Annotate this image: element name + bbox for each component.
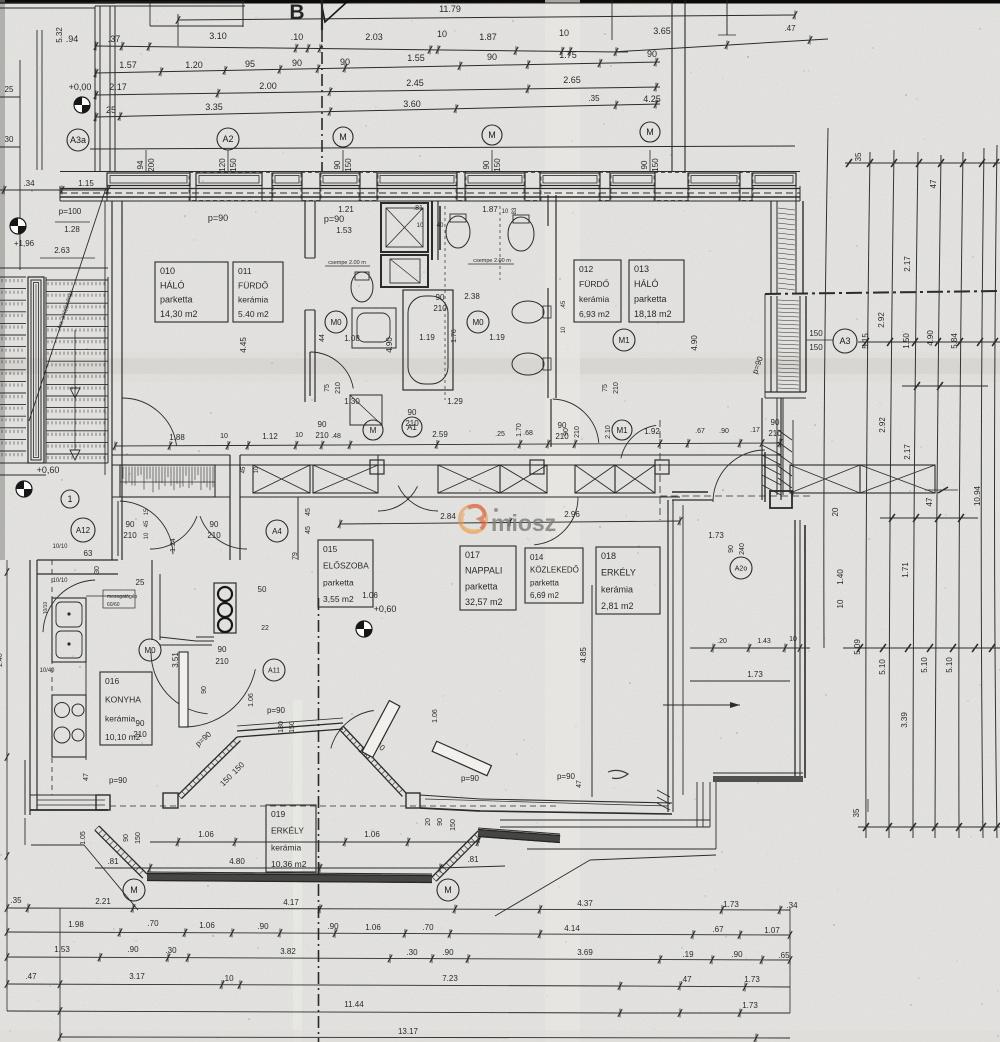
svg-text:4.90: 4.90 xyxy=(385,337,394,353)
svg-text:.48: .48 xyxy=(331,433,341,440)
svg-text:5.84: 5.84 xyxy=(950,333,959,349)
svg-text:2.92: 2.92 xyxy=(877,312,886,328)
svg-text:.34: .34 xyxy=(23,179,35,188)
svg-text:210: 210 xyxy=(315,431,329,440)
svg-text:150: 150 xyxy=(344,158,353,172)
svg-text:6,93 m2: 6,93 m2 xyxy=(579,309,610,319)
svg-text:47: 47 xyxy=(929,179,938,188)
svg-text:1.50: 1.50 xyxy=(902,333,911,349)
svg-text:ERKÉLY: ERKÉLY xyxy=(271,826,304,836)
svg-text:2.45: 2.45 xyxy=(406,78,424,88)
svg-text:FÜRDŐ: FÜRDŐ xyxy=(238,280,269,290)
svg-text:.47: .47 xyxy=(680,975,692,984)
svg-text:3.17: 3.17 xyxy=(129,972,145,981)
svg-text:150: 150 xyxy=(809,343,823,352)
svg-text:4.90: 4.90 xyxy=(690,335,699,351)
svg-text:90: 90 xyxy=(563,428,570,436)
svg-text:1.76: 1.76 xyxy=(451,329,458,343)
svg-text:50: 50 xyxy=(258,585,267,594)
svg-text:210: 210 xyxy=(123,531,137,540)
svg-text:1.19: 1.19 xyxy=(419,333,435,342)
svg-text:1.06: 1.06 xyxy=(432,709,439,723)
svg-text:M: M xyxy=(488,130,496,140)
svg-text:013: 013 xyxy=(634,264,649,274)
svg-text:90: 90 xyxy=(218,645,227,654)
svg-text:p=90: p=90 xyxy=(109,776,128,785)
svg-text:017: 017 xyxy=(465,550,480,560)
svg-text:2.40: 2.40 xyxy=(0,653,4,667)
svg-text:45: 45 xyxy=(305,526,312,534)
svg-text:180: 180 xyxy=(278,721,285,733)
svg-text:90: 90 xyxy=(482,160,491,169)
svg-text:1.15: 1.15 xyxy=(78,179,94,188)
svg-text:3.35: 3.35 xyxy=(205,102,223,112)
svg-text:.35: .35 xyxy=(10,896,22,905)
svg-text:ELŐSZOBA: ELŐSZOBA xyxy=(323,561,369,571)
svg-text:47: 47 xyxy=(83,773,90,781)
svg-text:10: 10 xyxy=(559,28,569,38)
svg-text:.68: .68 xyxy=(523,430,533,437)
svg-text:5.10: 5.10 xyxy=(878,659,887,675)
svg-text:M: M xyxy=(646,127,654,137)
svg-text:10,10 m2: 10,10 m2 xyxy=(105,732,141,742)
svg-text:1.28: 1.28 xyxy=(64,225,80,234)
svg-text:.81: .81 xyxy=(107,857,119,866)
svg-text:1.71: 1.71 xyxy=(901,562,910,578)
svg-text:45: 45 xyxy=(305,508,312,516)
svg-text:1.53: 1.53 xyxy=(336,226,352,235)
svg-text:1: 1 xyxy=(67,494,72,504)
svg-text:2,81 m2: 2,81 m2 xyxy=(601,601,634,611)
svg-text:011: 011 xyxy=(238,266,252,276)
svg-text:90: 90 xyxy=(136,719,145,728)
svg-text:4.37: 4.37 xyxy=(577,899,593,908)
svg-text:M0: M0 xyxy=(330,318,342,327)
svg-text:.90: .90 xyxy=(127,945,139,954)
svg-text:210: 210 xyxy=(574,426,581,438)
svg-text:4.25: 4.25 xyxy=(643,94,661,104)
svg-text:A3: A3 xyxy=(839,336,850,346)
svg-text:10: 10 xyxy=(417,223,424,229)
svg-text:2.92: 2.92 xyxy=(878,417,887,433)
svg-text:11.44: 11.44 xyxy=(344,1000,364,1009)
svg-text:11.79: 11.79 xyxy=(439,4,461,14)
svg-text:4.90: 4.90 xyxy=(926,330,935,346)
svg-text:.90: .90 xyxy=(257,922,269,931)
svg-text:150: 150 xyxy=(651,158,660,172)
svg-text:csempe 2.00 m: csempe 2.00 m xyxy=(328,260,366,266)
svg-text:1.73: 1.73 xyxy=(708,531,724,540)
svg-text:10: 10 xyxy=(220,433,228,440)
svg-text:20: 20 xyxy=(831,507,840,516)
svg-text:KÖZLEKEDŐ: KÖZLEKEDŐ xyxy=(530,566,579,575)
svg-text:10/10: 10/10 xyxy=(52,544,68,550)
svg-text:5.15: 5.15 xyxy=(861,333,870,349)
svg-text:.25: .25 xyxy=(495,431,505,438)
svg-text:3.10: 3.10 xyxy=(209,31,227,41)
svg-text:KONYHA: KONYHA xyxy=(105,695,141,705)
svg-text:4.45: 4.45 xyxy=(239,337,248,353)
svg-text:5.09: 5.09 xyxy=(853,639,862,655)
svg-text:13.17: 13.17 xyxy=(398,1027,419,1036)
svg-text:p=90: p=90 xyxy=(324,214,344,224)
svg-text:1.29: 1.29 xyxy=(447,397,463,406)
svg-text:018: 018 xyxy=(601,551,616,561)
svg-text:90: 90 xyxy=(728,545,735,553)
svg-text:.10: .10 xyxy=(291,32,304,42)
svg-text:1.06: 1.06 xyxy=(362,591,378,600)
svg-text:90: 90 xyxy=(647,49,657,59)
svg-text:A11: A11 xyxy=(268,668,280,675)
svg-text:.10: .10 xyxy=(222,974,234,983)
svg-text:35: 35 xyxy=(852,808,861,817)
svg-text:90: 90 xyxy=(201,686,208,694)
svg-text:1.07: 1.07 xyxy=(764,926,780,935)
svg-text:10: 10 xyxy=(836,599,845,608)
svg-text:B: B xyxy=(289,1,304,24)
svg-text:10,36 m2: 10,36 m2 xyxy=(271,859,307,869)
svg-text:35: 35 xyxy=(854,152,863,161)
svg-text:79: 79 xyxy=(292,552,299,560)
svg-text:10/10: 10/10 xyxy=(52,578,68,584)
svg-text:90: 90 xyxy=(487,52,497,62)
svg-text:p=90: p=90 xyxy=(557,772,576,781)
svg-text:010: 010 xyxy=(160,266,175,276)
svg-text:10.94: 10.94 xyxy=(973,485,982,506)
svg-text:90: 90 xyxy=(333,160,342,169)
svg-text:1.53: 1.53 xyxy=(54,945,70,954)
svg-text:2.65: 2.65 xyxy=(563,75,581,85)
svg-text:95: 95 xyxy=(245,59,255,69)
svg-text:4.17: 4.17 xyxy=(283,898,299,907)
svg-text:90: 90 xyxy=(126,520,135,529)
svg-text:1.57: 1.57 xyxy=(119,60,137,70)
svg-text:90: 90 xyxy=(292,58,302,68)
svg-text:kerámia: kerámia xyxy=(271,842,302,852)
svg-text:.70: .70 xyxy=(422,923,434,932)
svg-text:2.63: 2.63 xyxy=(54,246,70,255)
svg-text:10: 10 xyxy=(254,466,260,473)
svg-text:3.82: 3.82 xyxy=(280,947,296,956)
svg-text:10: 10 xyxy=(789,636,797,643)
svg-text:45: 45 xyxy=(144,520,150,527)
svg-text:10: 10 xyxy=(144,532,150,539)
svg-text:4.80: 4.80 xyxy=(229,857,245,866)
svg-text:10/10: 10/10 xyxy=(43,602,49,615)
svg-text:10: 10 xyxy=(561,326,567,333)
svg-text:4.85: 4.85 xyxy=(579,647,588,663)
svg-text:2.21: 2.21 xyxy=(95,897,111,906)
svg-text:3.65: 3.65 xyxy=(653,26,671,36)
svg-text:M1: M1 xyxy=(618,336,630,345)
svg-text:5.10: 5.10 xyxy=(920,657,929,673)
svg-text:.65: .65 xyxy=(778,951,790,960)
svg-text:M: M xyxy=(339,132,347,142)
svg-text:1.20: 1.20 xyxy=(185,60,203,70)
svg-text:.94: .94 xyxy=(66,34,79,44)
svg-text:1.43: 1.43 xyxy=(757,638,771,645)
svg-text:A2o: A2o xyxy=(735,566,748,573)
svg-text:1.87: 1.87 xyxy=(482,205,498,214)
svg-text:2.17: 2.17 xyxy=(903,444,912,460)
svg-text:1.06: 1.06 xyxy=(248,693,255,707)
svg-text:1.92: 1.92 xyxy=(644,427,660,436)
svg-text:A4: A4 xyxy=(272,527,282,536)
svg-text:1.06: 1.06 xyxy=(365,923,381,932)
svg-text:M0: M0 xyxy=(472,318,484,327)
svg-text:.30: .30 xyxy=(165,946,177,955)
svg-text:012: 012 xyxy=(579,264,593,274)
svg-text:016: 016 xyxy=(105,676,119,686)
svg-text:+1,96: +1,96 xyxy=(14,239,35,248)
svg-text:1.30: 1.30 xyxy=(344,397,360,406)
svg-text:.83: .83 xyxy=(512,207,518,216)
svg-text:44: 44 xyxy=(319,334,326,342)
svg-text:1.73: 1.73 xyxy=(747,670,763,679)
svg-text:1.12: 1.12 xyxy=(262,432,278,441)
svg-text:1.98: 1.98 xyxy=(68,920,84,929)
svg-text:94: 94 xyxy=(136,160,145,169)
svg-text:1.73: 1.73 xyxy=(742,1001,758,1010)
svg-text:1.70: 1.70 xyxy=(516,423,523,437)
svg-text:120: 120 xyxy=(218,158,227,172)
svg-text:5.40 m2: 5.40 m2 xyxy=(238,309,269,319)
svg-text:40: 40 xyxy=(437,223,444,229)
svg-text:parketta: parketta xyxy=(634,294,667,304)
svg-text:1.08: 1.08 xyxy=(344,334,360,343)
svg-text:150: 150 xyxy=(289,721,296,733)
svg-text:kerámia: kerámia xyxy=(105,713,136,723)
svg-text:200: 200 xyxy=(147,158,156,172)
svg-text:.90: .90 xyxy=(731,950,743,959)
svg-text:parketta: parketta xyxy=(160,295,193,305)
svg-text:240: 240 xyxy=(739,543,746,555)
svg-text:60/60: 60/60 xyxy=(107,602,120,608)
svg-text:FÜRDŐ: FÜRDŐ xyxy=(579,279,610,289)
svg-text:+0,00: +0,00 xyxy=(69,82,92,92)
svg-text:210: 210 xyxy=(335,382,342,394)
svg-text:1.05: 1.05 xyxy=(80,831,87,845)
svg-text:25: 25 xyxy=(136,578,145,587)
svg-text:.19: .19 xyxy=(682,950,694,959)
svg-text:1.75: 1.75 xyxy=(559,50,577,60)
svg-text:47: 47 xyxy=(925,497,934,506)
svg-text:1.55: 1.55 xyxy=(407,53,425,63)
svg-text:90: 90 xyxy=(123,834,130,842)
svg-text:HÁLÓ: HÁLÓ xyxy=(634,279,659,289)
svg-text:A2: A2 xyxy=(222,134,233,144)
svg-text:10: 10 xyxy=(295,432,303,439)
svg-text:210: 210 xyxy=(768,429,782,438)
svg-text:.81: .81 xyxy=(467,855,479,864)
svg-text:parketta: parketta xyxy=(323,577,354,587)
svg-text:kerámia: kerámia xyxy=(579,294,610,304)
svg-text:parketta: parketta xyxy=(465,581,498,591)
svg-text:HÁLÓ: HÁLÓ xyxy=(160,280,185,290)
svg-text:.47: .47 xyxy=(784,24,796,33)
svg-text:M1: M1 xyxy=(616,426,628,435)
svg-text:2.10: 2.10 xyxy=(605,425,612,439)
svg-text:30: 30 xyxy=(94,566,101,574)
svg-text:75: 75 xyxy=(324,384,331,392)
svg-text:2.17: 2.17 xyxy=(109,82,127,92)
svg-text:1.06: 1.06 xyxy=(364,830,380,839)
svg-text:5.10: 5.10 xyxy=(945,657,954,673)
svg-text:3.69: 3.69 xyxy=(577,948,593,957)
svg-text:1.87: 1.87 xyxy=(479,32,497,42)
svg-text:10: 10 xyxy=(437,29,447,39)
svg-text:p=100: p=100 xyxy=(59,207,82,216)
svg-text:150: 150 xyxy=(809,329,823,338)
svg-text:22: 22 xyxy=(261,625,269,632)
svg-text:.45: .45 xyxy=(561,300,567,309)
svg-text:.90: .90 xyxy=(327,922,339,931)
svg-text:A12: A12 xyxy=(76,526,91,535)
svg-text:kerámia: kerámia xyxy=(238,295,269,305)
svg-text:150: 150 xyxy=(450,819,457,831)
svg-text:+0,60: +0,60 xyxy=(374,604,397,614)
svg-text:1.19: 1.19 xyxy=(489,333,505,342)
svg-text:45: 45 xyxy=(241,466,247,473)
svg-text:mosogatógép: mosogatógép xyxy=(107,594,138,600)
svg-text:90: 90 xyxy=(436,293,445,302)
svg-text:4.14: 4.14 xyxy=(564,924,580,933)
svg-text:30: 30 xyxy=(5,135,14,144)
svg-text:.20: .20 xyxy=(717,638,727,645)
svg-text:7.23: 7.23 xyxy=(442,974,458,983)
svg-text:2.38: 2.38 xyxy=(464,292,480,301)
svg-text:90: 90 xyxy=(340,57,350,67)
svg-text:90: 90 xyxy=(437,818,444,826)
svg-text:.30: .30 xyxy=(406,948,418,957)
svg-text:10: 10 xyxy=(502,209,509,215)
svg-text:150: 150 xyxy=(135,832,142,844)
svg-text:150: 150 xyxy=(493,158,502,172)
svg-text:M: M xyxy=(444,885,452,895)
svg-text:90: 90 xyxy=(408,408,417,417)
svg-text:014: 014 xyxy=(530,553,544,562)
svg-text:parketta: parketta xyxy=(530,578,559,587)
svg-text:1.73: 1.73 xyxy=(723,900,739,909)
svg-text:M: M xyxy=(130,885,138,895)
svg-text:5.32: 5.32 xyxy=(55,27,64,43)
svg-text:210: 210 xyxy=(433,304,447,313)
svg-text:3.39: 3.39 xyxy=(900,712,909,728)
svg-text:47: 47 xyxy=(576,780,583,788)
svg-text:150: 150 xyxy=(229,158,238,172)
svg-text:10/40: 10/40 xyxy=(39,668,55,674)
svg-text:20: 20 xyxy=(425,818,432,826)
svg-text:.67: .67 xyxy=(695,428,705,435)
svg-text:A3a: A3a xyxy=(70,135,86,145)
svg-text:kerámia: kerámia xyxy=(601,584,633,594)
svg-text:210: 210 xyxy=(215,657,229,666)
svg-text:2.00: 2.00 xyxy=(259,81,277,91)
svg-text:ERKÉLY: ERKÉLY xyxy=(601,568,636,578)
svg-text:csempe 2.00 m: csempe 2.00 m xyxy=(473,258,511,264)
svg-text:.81: .81 xyxy=(413,205,423,212)
svg-text:019: 019 xyxy=(271,809,285,819)
svg-text:2.17: 2.17 xyxy=(903,256,912,272)
svg-text:2.96: 2.96 xyxy=(564,510,580,519)
svg-text:25: 25 xyxy=(5,85,14,94)
svg-text:M: M xyxy=(370,426,377,435)
svg-text:.17: .17 xyxy=(750,427,760,434)
svg-text:+0,60: +0,60 xyxy=(37,465,60,475)
svg-text:p=90: p=90 xyxy=(267,706,286,715)
svg-text:NAPPALI: NAPPALI xyxy=(465,566,502,576)
svg-text:14,30 m2: 14,30 m2 xyxy=(160,309,198,319)
svg-text:1.40: 1.40 xyxy=(836,569,845,585)
svg-text:2.03: 2.03 xyxy=(365,32,383,42)
svg-text:1.73: 1.73 xyxy=(744,975,760,984)
svg-text:.90: .90 xyxy=(442,948,454,957)
svg-text:2.59: 2.59 xyxy=(432,430,448,439)
svg-text:1.88: 1.88 xyxy=(169,433,185,442)
svg-text:18,18 m2: 18,18 m2 xyxy=(634,309,672,319)
svg-text:.70: .70 xyxy=(147,919,159,928)
svg-text:90: 90 xyxy=(318,420,327,429)
svg-text:.34: .34 xyxy=(786,901,798,910)
svg-text:A1: A1 xyxy=(407,423,417,432)
svg-text:.67: .67 xyxy=(712,925,724,934)
svg-text:90: 90 xyxy=(771,418,780,427)
svg-text:3,55 m2: 3,55 m2 xyxy=(323,594,354,604)
svg-text:90: 90 xyxy=(210,520,219,529)
svg-text:1.21: 1.21 xyxy=(338,205,354,214)
svg-text:32,57 m2: 32,57 m2 xyxy=(465,597,503,607)
svg-text:1.06: 1.06 xyxy=(199,921,215,930)
svg-text:.35: .35 xyxy=(588,94,600,103)
svg-text:90: 90 xyxy=(640,160,649,169)
svg-text:3.60: 3.60 xyxy=(403,99,421,109)
svg-text:210: 210 xyxy=(613,382,620,394)
svg-text:M0: M0 xyxy=(144,646,156,655)
svg-text:015: 015 xyxy=(323,544,337,554)
svg-text:.47: .47 xyxy=(25,972,37,981)
svg-text:p=90: p=90 xyxy=(208,213,228,223)
svg-text:miosz: miosz xyxy=(491,510,556,536)
svg-text:p=90: p=90 xyxy=(461,774,480,783)
svg-text:2.84: 2.84 xyxy=(440,512,456,521)
svg-text:75: 75 xyxy=(602,384,609,392)
svg-text:.90: .90 xyxy=(719,428,729,435)
svg-text:1.06: 1.06 xyxy=(198,830,214,839)
svg-text:63: 63 xyxy=(84,549,93,558)
